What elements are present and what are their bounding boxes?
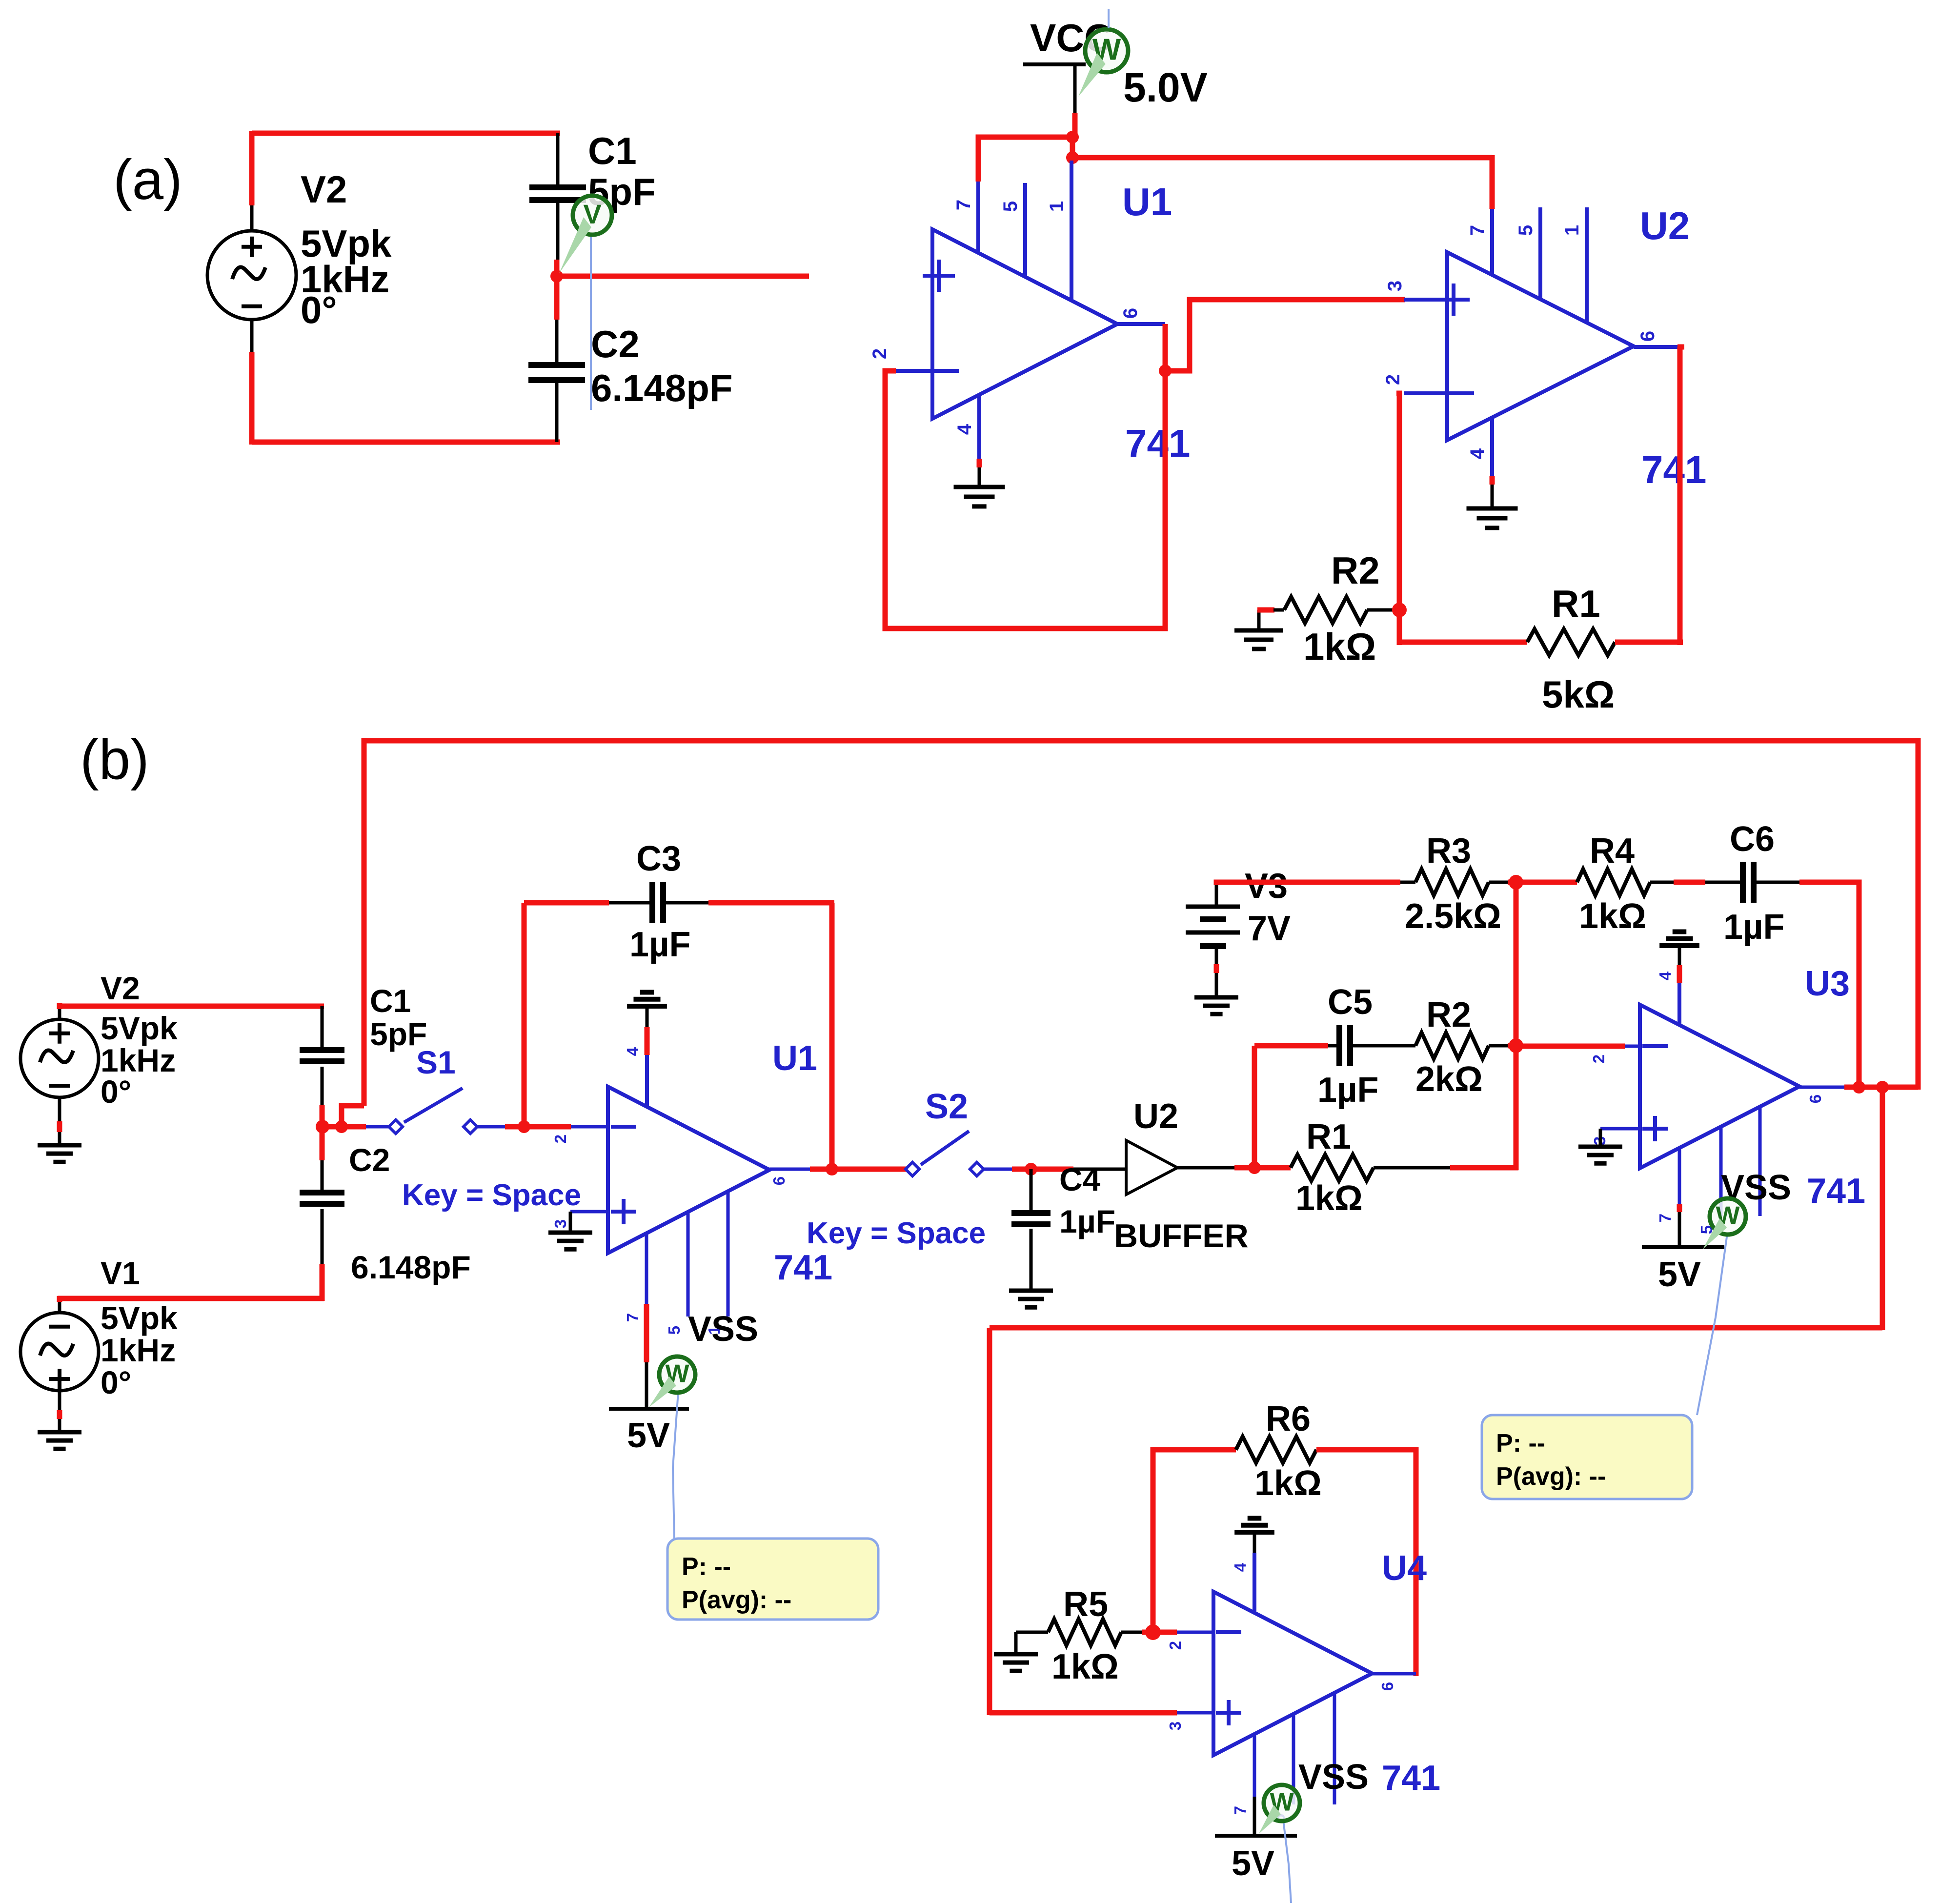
capacitor C1 (part a) 5pF — [529, 184, 586, 190]
svg-text:S1: S1 — [416, 1044, 456, 1080]
svg-text:5V: 5V — [1232, 1844, 1274, 1883]
node: C4 junction — [1025, 1163, 1037, 1175]
svg-text:V1: V1 — [101, 1255, 140, 1291]
wire: red vertical to C5 branch — [1252, 1046, 1257, 1168]
probe W leader to right yellow box — [1697, 1234, 1727, 1415]
wire: R2a red tick — [1257, 608, 1274, 613]
capacitor C2 (part b) 6.148pF — [300, 1190, 344, 1195]
wire: V1 ground stem — [58, 1391, 61, 1432]
wire: red wire junction to U3 pin2 — [1516, 1044, 1625, 1049]
wire: red above U2a pin7 — [1490, 155, 1495, 209]
wire: R6 left red vertical — [1151, 1447, 1156, 1634]
wire: V1 top black stem — [58, 1298, 61, 1313]
wire: (b) V1 red wire to C2 column — [58, 1296, 324, 1301]
svg-text:2.5kΩ: 2.5kΩ — [1405, 897, 1501, 936]
svg-text:741: 741 — [1382, 1759, 1440, 1798]
wire: feedback loop U1a output to pin2 — [885, 371, 1165, 628]
ground below U2a — [1467, 506, 1518, 511]
svg-text:S2: S2 — [925, 1087, 968, 1126]
wire: (a) bottom red wire — [252, 440, 560, 445]
op-amp U2 minus input mark — [1442, 391, 1474, 395]
pin 5 of U4 — [1292, 1714, 1295, 1804]
ground below C4 — [1009, 1289, 1053, 1293]
wire: R1 right red lead — [1615, 640, 1683, 645]
svg-text:V3: V3 — [1245, 867, 1288, 906]
ground below V1 — [38, 1430, 81, 1435]
node: buffer output junction — [1248, 1161, 1261, 1174]
svg-text:6: 6 — [1120, 308, 1141, 319]
wire: U3 output red — [1844, 1085, 1918, 1090]
svg-text:1kΩ: 1kΩ — [1579, 897, 1646, 936]
wire: C3 left red lead — [524, 900, 609, 906]
wire: C4 bottom stem — [1030, 1229, 1033, 1291]
svg-text:1kHz: 1kHz — [101, 1332, 176, 1368]
svg-text:C1: C1 — [370, 983, 411, 1019]
voltage probe V (part a) — [573, 196, 612, 235]
U1b plus mark — [611, 1210, 636, 1214]
VSS 5V rail bar (U4) — [1215, 1834, 1297, 1838]
wire: red step up to U2 pin3 wire — [1165, 300, 1405, 371]
wire: red link between VCC nodes — [1070, 137, 1075, 158]
op-amp U1 (part a) triangle — [932, 229, 1117, 419]
op-amp U2 plus input mark — [1437, 298, 1470, 302]
pin 3 lead of U3 — [1600, 1127, 1640, 1131]
wire: red from buffer node to R1b — [1254, 1165, 1291, 1171]
yellow note box (left) — [667, 1539, 878, 1620]
svg-text:2: 2 — [1382, 374, 1404, 385]
svg-text:(b): (b) — [80, 728, 149, 791]
svg-text:0°: 0° — [101, 1364, 131, 1400]
svg-text:4: 4 — [624, 1047, 642, 1056]
wire: R3 left black lead — [1400, 881, 1415, 884]
svg-text:C1: C1 — [588, 129, 637, 172]
wire: R4-C6 red segment — [1674, 880, 1705, 885]
wire: red down to U4 plus loop — [987, 1328, 992, 1715]
ground below U1a — [954, 485, 1005, 489]
svg-text:6: 6 — [1637, 331, 1658, 342]
wire: V2b ground red tick — [57, 1121, 62, 1132]
svg-text:4: 4 — [954, 424, 975, 435]
svg-text:1kΩ: 1kΩ — [1254, 1464, 1322, 1503]
wire: (a) top red wire V2 to C1 — [252, 131, 560, 136]
ground below V2b — [38, 1143, 81, 1148]
svg-text:U2: U2 — [1133, 1097, 1178, 1136]
svg-text:5V: 5V — [627, 1416, 670, 1455]
wire: red tick below pin4 U1a — [977, 459, 982, 467]
wire: (b) long top feedback wire — [364, 738, 1918, 744]
probe V leader line (light blue) — [590, 234, 592, 410]
wire: (b) right tall red vertical of top feedback — [1916, 738, 1921, 1090]
capacitor C5 1uF — [1336, 1025, 1342, 1066]
resistor R2 (part b) 2k — [1415, 1033, 1489, 1059]
wire: (a) left red drop to V2 top — [249, 131, 255, 205]
node: (b) divider junction — [316, 1120, 329, 1134]
U3 plus mark — [1642, 1127, 1668, 1131]
probe W leader below U4 — [1283, 1820, 1291, 1903]
wire: C3 right red lead to output branch — [708, 900, 834, 906]
node: U1a output junction — [1159, 365, 1172, 377]
svg-text:1: 1 — [1046, 201, 1068, 212]
svg-text:2: 2 — [1590, 1054, 1608, 1063]
wire: ground stem U2a — [1491, 485, 1494, 508]
pin 5 of U1a — [1023, 183, 1027, 277]
resistor R1 (part b) 1k — [1291, 1155, 1374, 1181]
svg-text:R3: R3 — [1426, 831, 1471, 871]
wire: U1b pin4 red segment — [645, 1027, 650, 1055]
svg-text:7: 7 — [1467, 225, 1488, 236]
wire: (a) red stub below node — [554, 276, 560, 320]
svg-text:4: 4 — [1467, 448, 1488, 459]
wire: red from U2a pin2 down — [1396, 393, 1399, 645]
wire: C6 left black lead — [1705, 881, 1740, 884]
svg-text:5.0V: 5.0V — [1123, 64, 1208, 110]
wire: red vertical R3R4 junction down to R1b — [1514, 882, 1519, 1170]
ground for R5 — [1014, 1632, 1018, 1654]
svg-text:C5: C5 — [1328, 983, 1373, 1022]
node: U1b output junction — [826, 1163, 838, 1175]
wire: V1 ground red tick — [57, 1410, 62, 1419]
pin 1 of U1a — [1070, 161, 1073, 301]
wire: red output step of U1a — [1163, 324, 1168, 373]
node: R3 R4 junction — [1509, 875, 1523, 890]
wire: V3 stem red tick — [1214, 964, 1219, 973]
pin 4 lead of U1a — [977, 395, 981, 459]
U4 minus mark — [1216, 1630, 1241, 1634]
AC source V2 (part b) — [20, 1019, 99, 1097]
svg-text:C2: C2 — [591, 323, 640, 365]
pin 4 lead of U2a — [1490, 418, 1494, 476]
resistor R6 1k — [1236, 1437, 1316, 1463]
svg-text:V2: V2 — [301, 168, 347, 211]
wire: C5 left red lead — [1254, 1043, 1328, 1049]
svg-text:5: 5 — [665, 1326, 683, 1335]
power probe W at U4 VSS — [1264, 1785, 1300, 1821]
wire: R6 left red lead — [1153, 1447, 1236, 1453]
wire: R5 left black lead — [1016, 1631, 1048, 1634]
resistor R5 1k — [1048, 1619, 1121, 1645]
svg-text:741: 741 — [1807, 1172, 1865, 1211]
svg-text:2: 2 — [1166, 1641, 1184, 1650]
svg-text:1µF: 1µF — [1059, 1203, 1115, 1239]
ground above U4 pin4 — [1248, 1516, 1262, 1521]
svg-text:0°: 0° — [101, 1074, 131, 1110]
svg-text:4: 4 — [1656, 971, 1674, 980]
pin 6 output lead of U2a — [1634, 345, 1680, 349]
capacitor C6 1uF — [1740, 862, 1746, 903]
pin 1 of U3 — [1758, 1106, 1762, 1216]
svg-text:C2: C2 — [349, 1142, 390, 1178]
pin 6 output lead of U1a — [1117, 322, 1165, 326]
wire: buffer output black lead — [1177, 1166, 1234, 1170]
svg-text:R6: R6 — [1266, 1399, 1311, 1438]
wire: red from U1b output to S2 — [810, 1167, 907, 1172]
svg-text:6: 6 — [770, 1176, 788, 1185]
wire: red R2a junction stub — [1394, 608, 1401, 613]
power probe W at VCC — [1085, 29, 1128, 72]
svg-text:5Vpk: 5Vpk — [101, 1300, 178, 1336]
wire: V2b top black stem — [58, 1006, 61, 1020]
wire: (b) C2 red lead below divider node — [320, 1127, 325, 1160]
wire: U1b pin7 black segment to 5V rail — [645, 1362, 648, 1409]
svg-text:R5: R5 — [1063, 1585, 1108, 1624]
AC source V1 (part b) — [20, 1313, 99, 1391]
resistor R3 2.5k — [1415, 869, 1489, 895]
svg-text:(a): (a) — [113, 148, 182, 211]
ground at U3 pin3 — [1599, 1129, 1602, 1147]
probe W leader tick — [1108, 9, 1110, 28]
svg-text:R4: R4 — [1590, 831, 1635, 871]
switch S1 — [323, 1124, 366, 1130]
svg-text:5Vpk: 5Vpk — [101, 1010, 178, 1046]
svg-text:U1: U1 — [1122, 180, 1172, 223]
resistor R1 (part a) 5k — [1527, 629, 1615, 655]
wire: U4 pin7 black to 5V — [1253, 1797, 1256, 1836]
resistor R2 (part a) 1k — [1284, 597, 1367, 623]
U1b minus mark — [611, 1125, 636, 1129]
wire: C3 left black lead — [609, 901, 650, 905]
svg-text:5V: 5V — [1658, 1255, 1701, 1294]
pin 7 of U1b — [645, 1233, 648, 1304]
svg-text:VSS: VSS — [1298, 1758, 1369, 1797]
svg-text:3: 3 — [1166, 1722, 1184, 1730]
svg-text:2: 2 — [551, 1134, 569, 1143]
svg-text:U3: U3 — [1805, 964, 1850, 1003]
svg-text:2kΩ: 2kΩ — [1415, 1060, 1483, 1099]
pin 2 lead of U1a — [894, 369, 932, 373]
wire: R3 right lead — [1489, 881, 1508, 884]
wire: black lead into buffer U2b — [1073, 1168, 1126, 1171]
wire: (a) C2 top black lead — [555, 320, 559, 363]
pin 7 of U3 — [1678, 1148, 1681, 1204]
wire: R4 right black lead — [1650, 881, 1674, 884]
svg-text:R1: R1 — [1306, 1117, 1351, 1156]
wire: long red VCC wire to U2 pin7 — [1072, 155, 1492, 161]
wire: red tick below pin4 U2a — [1490, 476, 1495, 485]
svg-text:U1: U1 — [772, 1039, 817, 1078]
pin 4 of U1b — [645, 1055, 649, 1107]
pin 3 lead of U2a — [1404, 298, 1447, 302]
svg-text:R1: R1 — [1552, 582, 1600, 625]
svg-text:VSS: VSS — [688, 1310, 758, 1349]
wire: (a) red output wire to the right — [557, 274, 809, 279]
pin 2 lead of U3 — [1625, 1045, 1640, 1048]
yellow note box (right) — [1482, 1415, 1692, 1499]
VSS 5V rail bar (U3) — [1642, 1245, 1724, 1249]
wire: C4 top stem — [1030, 1169, 1033, 1211]
wire: V3 top stem and red lead to R3 — [1215, 885, 1218, 907]
wire: U3 pin7 red tick — [1677, 1204, 1682, 1212]
svg-text:1kΩ: 1kΩ — [1051, 1647, 1119, 1686]
wire: R1b red lead to vertical — [1450, 1165, 1518, 1171]
wire: (b) C1 bottom black lead — [321, 1067, 324, 1105]
wire: (b) C2 bottom red lead — [320, 1264, 325, 1301]
svg-text:C3: C3 — [636, 839, 681, 878]
op-amp U4 triangle — [1213, 1592, 1372, 1755]
node: (a) divider junction — [550, 270, 563, 283]
pin 6 output lead U4 — [1372, 1672, 1416, 1676]
wire: small red output stub U2a — [1677, 344, 1684, 350]
svg-text:1µF: 1µF — [1723, 908, 1785, 947]
wire: R2a left black lead — [1273, 608, 1284, 612]
svg-text:3: 3 — [1384, 281, 1406, 291]
pin 1 of U1b — [727, 1192, 730, 1317]
svg-text:1µF: 1µF — [629, 925, 691, 964]
svg-text:U4: U4 — [1382, 1549, 1427, 1588]
ground for R2 (part a) — [1234, 628, 1283, 633]
pin 2 lead of U4 — [1177, 1631, 1213, 1634]
svg-text:6.148pF: 6.148pF — [351, 1249, 471, 1285]
wire: (b) C2 top black lead — [321, 1160, 324, 1192]
wire: C6 right black lead — [1756, 881, 1799, 884]
svg-text:6: 6 — [1378, 1682, 1396, 1691]
AC source V2 (part a) — [207, 231, 296, 320]
wire: R5 right black lead — [1121, 1631, 1142, 1634]
svg-text:0°: 0° — [301, 288, 337, 331]
pin 3 lead of U1b — [570, 1210, 608, 1214]
wire: (b) red stub into node — [320, 1105, 325, 1129]
svg-text:7: 7 — [953, 200, 974, 210]
pin 3 lead of U4 — [1177, 1711, 1213, 1715]
wire: (a) left red drop to bottom wire — [249, 352, 255, 445]
pin 6 output lead U1b — [769, 1168, 810, 1171]
svg-text:P: --: P: -- — [1496, 1429, 1545, 1458]
svg-text:741: 741 — [1641, 448, 1706, 491]
node: junction at C3 left branch — [518, 1120, 530, 1133]
capacitor C1 (part b) 5pF — [300, 1047, 344, 1053]
node: R2a to feedback junction — [1392, 603, 1407, 617]
svg-text:7: 7 — [1656, 1214, 1674, 1222]
op-amp U1 plus input mark — [923, 274, 955, 278]
svg-text:1µF: 1µF — [1317, 1071, 1379, 1110]
op-amp U1 minus input mark — [927, 369, 959, 373]
op-amp U1 (part b) triangle — [608, 1087, 769, 1253]
wire: U4 pin4 black stem — [1253, 1532, 1256, 1553]
svg-text:C6: C6 — [1730, 820, 1775, 859]
svg-text:P(avg): --: P(avg): -- — [1496, 1462, 1606, 1491]
wire: U3 pin4 black stem — [1678, 946, 1681, 965]
pin 5 of U3 — [1719, 1126, 1723, 1216]
pin 7 of U2a — [1490, 209, 1494, 275]
node: R2b junction on vertical — [1509, 1038, 1523, 1053]
node: VCC junction lower — [1066, 151, 1079, 164]
wire: (b) red step into source node — [342, 1106, 364, 1129]
wire: U1b pin7 red segment — [644, 1304, 649, 1362]
svg-text:R2: R2 — [1331, 549, 1380, 592]
wire: red from U2a output down to R1 — [1677, 347, 1683, 645]
wire: red bottom to R1 left — [1399, 640, 1527, 645]
node: output junction bottom branch — [1876, 1081, 1889, 1094]
wire: long bottom red wire — [990, 1325, 1882, 1331]
wire: (b) V2 red wire to C1 column — [57, 1003, 62, 1009]
svg-text:3: 3 — [551, 1219, 569, 1228]
U4 plus mark — [1216, 1711, 1241, 1715]
wire: C3 right black lead — [666, 901, 708, 905]
capacitor C2 (part a) 6.148pF — [528, 362, 585, 368]
wire: (a) V2 top black lead — [250, 205, 254, 231]
VSS 5V rail bar (U1b) — [609, 1407, 689, 1411]
wire: (a) red stub above node — [554, 260, 560, 276]
svg-text:741: 741 — [774, 1248, 832, 1287]
op-amp U2 (part a) triangle — [1447, 252, 1634, 440]
capacitor C4 1uF — [1011, 1210, 1051, 1216]
wire: red vertical C3 left branch — [522, 903, 527, 1127]
svg-text:1kHz: 1kHz — [101, 1042, 176, 1078]
svg-text:P(avg): --: P(avg): -- — [682, 1586, 791, 1614]
svg-text:C4: C4 — [1059, 1161, 1101, 1197]
node: VCC junction upper — [1066, 131, 1079, 143]
wire: V2b ground stem — [58, 1097, 61, 1145]
svg-text:5: 5 — [1515, 225, 1536, 236]
svg-text:1kΩ: 1kΩ — [1303, 625, 1376, 668]
wire: R2b right lead — [1489, 1044, 1508, 1048]
wire: (b) C2 bottom black lead — [321, 1209, 324, 1264]
wire: R6 right red vertical to U4 output — [1414, 1447, 1419, 1676]
wire: buffer output red lead — [1234, 1165, 1257, 1171]
wire: R6 right red lead — [1316, 1447, 1418, 1453]
wire: R1b right black lead — [1374, 1166, 1450, 1170]
switch S2 — [906, 1162, 919, 1176]
pin 1 of U4 — [1333, 1693, 1336, 1804]
wire: red vertical from C3 to U1b output — [829, 903, 835, 1169]
VCC rail bar — [1023, 62, 1086, 66]
svg-text:6.148pF: 6.148pF — [591, 366, 732, 409]
resistor R4 1k — [1577, 869, 1650, 895]
wire: R2a ground stem — [1257, 610, 1261, 630]
wire: C5 to R2 black lead — [1353, 1044, 1415, 1048]
svg-text:5: 5 — [1000, 201, 1021, 212]
node: output junction C6 branch — [1853, 1081, 1865, 1094]
wire: ground stem U1a — [978, 467, 981, 487]
wire: (a) V2 bottom black lead — [250, 320, 254, 352]
capacitor C3 1uF — [649, 882, 655, 923]
svg-text:Key = Space: Key = Space — [807, 1216, 986, 1250]
pin 2 lead of U1b — [571, 1125, 608, 1129]
wire: U3 pin4 red segment — [1677, 965, 1682, 983]
pin 4 of U3 — [1677, 983, 1681, 1026]
pin 2 lead of U2a — [1404, 391, 1447, 395]
svg-text:U2: U2 — [1640, 204, 1690, 247]
wire: U1b pin4 black stem — [646, 1006, 649, 1027]
svg-text:7: 7 — [624, 1313, 642, 1322]
pin 1 of U2a — [1585, 207, 1589, 323]
wire: C5 left black lead — [1328, 1044, 1337, 1048]
wire: VCC stem black — [1073, 64, 1077, 113]
wire: (b) tall left red vertical from top wire — [362, 738, 367, 1106]
pin 5 of U1b — [687, 1212, 690, 1317]
svg-text:7V: 7V — [1248, 909, 1291, 948]
wire: red from S1 to U1b pin2 — [505, 1124, 571, 1130]
pin 5 of U2a — [1538, 207, 1542, 300]
svg-text:7: 7 — [1231, 1806, 1249, 1815]
probe W leader to left yellow box — [673, 1392, 678, 1539]
svg-text:V2: V2 — [101, 970, 140, 1006]
wire: red from U3 output down — [1880, 1087, 1885, 1330]
svg-text:1: 1 — [1561, 225, 1583, 236]
svg-text:5kΩ: 5kΩ — [1542, 673, 1615, 716]
svg-text:Key = Space: Key = Space — [402, 1178, 581, 1212]
svg-text:6: 6 — [1806, 1094, 1824, 1103]
wire: R5 red lead to U4 pin2 — [1142, 1630, 1177, 1635]
wire: C6 red lead to corner — [1799, 882, 1859, 1087]
battery V3 7V — [1186, 905, 1240, 909]
svg-text:2: 2 — [869, 348, 890, 359]
wire: red from junction to R4 — [1516, 880, 1577, 885]
op-amp U3 triangle — [1640, 1005, 1799, 1168]
wire: (a) C2 bottom black lead — [555, 383, 559, 442]
pin 6 output lead U3 — [1799, 1086, 1844, 1089]
wire: (b) C1 top black lead — [321, 1006, 324, 1049]
node: (b) step junction — [335, 1120, 348, 1133]
